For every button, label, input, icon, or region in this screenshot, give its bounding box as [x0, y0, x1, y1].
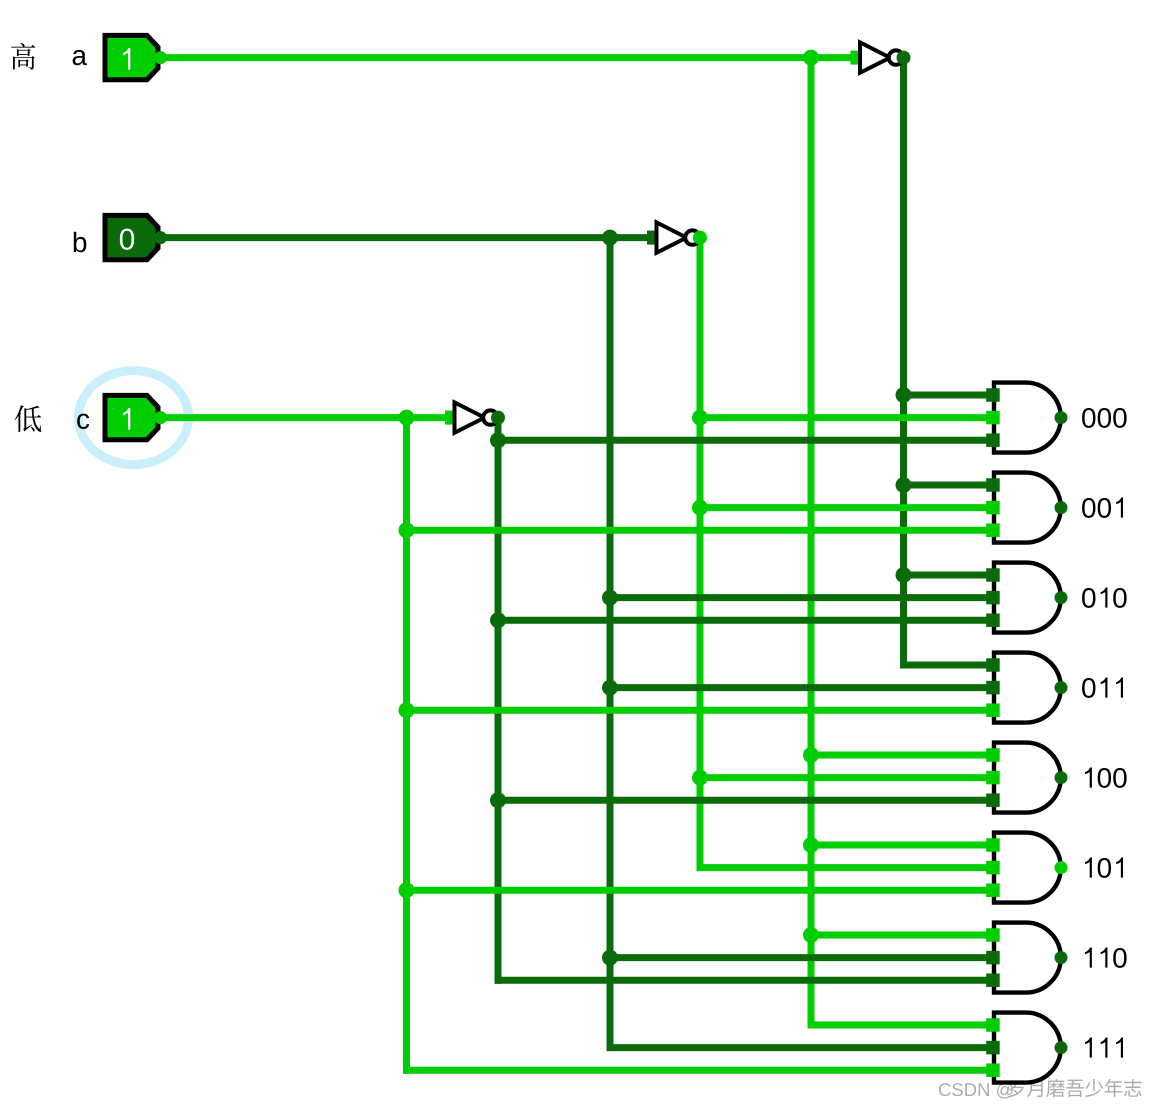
pin c output port: [154, 411, 167, 424]
wire branch NOT-a to gate 001 input 1: [900, 482, 987, 489]
wire c from pin c to NOT gate U3: [161, 414, 447, 421]
AND gate 001: [986, 473, 1061, 543]
input pin a (value 1): [105, 35, 158, 79]
AND gate 000 output port: [1055, 411, 1068, 424]
label 001: [1082, 498, 1123, 518]
wire branch c to gate 011 input 3: [403, 707, 987, 714]
junction node c / V1: [399, 410, 415, 426]
wire branch NOT-a to gate 010 input 1: [900, 572, 987, 579]
junction V1 row 101: [399, 882, 415, 898]
label 010: [1082, 588, 1127, 608]
wire net c vertical: [403, 418, 410, 1074]
junction V5 row 110: [803, 927, 819, 943]
wire branch b to gate 111 input 2: [607, 1044, 987, 1051]
wire branch a to gate 101 input 1: [808, 842, 987, 849]
pin a output port: [154, 51, 167, 64]
label 低 (low bit): [15, 405, 42, 432]
wire a from pin a to NOT gate U1: [161, 54, 852, 61]
junction V1 row 011: [399, 702, 415, 718]
wire branch NOT-c to gate 000 input 3: [495, 437, 987, 444]
wire net NOT-c vertical: [495, 418, 502, 984]
AND gate 011 output port: [1055, 681, 1068, 694]
AND gate 101 output port: [1055, 861, 1068, 874]
wire branch a to gate 111 input 1: [808, 1022, 987, 1029]
AND gate 101: [986, 833, 1061, 903]
NOT gate U1 (inverts a): [851, 42, 904, 72]
junction V2 row 010: [490, 612, 506, 628]
wire branch a to gate 110 input 1: [808, 932, 987, 939]
input pin b (value 0): [105, 215, 158, 259]
NOT gate U3 (inverts c): [445, 402, 498, 432]
wire branch c to gate 111 input 3: [403, 1067, 987, 1074]
AND gate 100: [986, 743, 1061, 813]
wire branch NOT-b to gate 001 input 2: [697, 504, 987, 511]
wire branch c to gate 001 input 3: [403, 527, 987, 534]
wire net a vertical: [808, 58, 815, 1029]
junction V4 row 000: [692, 410, 708, 426]
junction node b / V3: [602, 230, 618, 246]
junction V3 row 011: [602, 680, 618, 696]
wire branch NOT-a to gate 000 input 1: [900, 392, 987, 399]
AND gate 011: [986, 653, 1061, 723]
selection halo around pin c: [79, 371, 189, 465]
AND gate 010 output port: [1055, 591, 1068, 604]
label 101: [1085, 858, 1123, 878]
input pin c (value 1): [105, 395, 158, 439]
wire branch NOT-b to gate 101 input 2: [697, 864, 987, 871]
wire branch NOT-b to gate 000 input 2: [697, 414, 987, 421]
junction V6 row 010: [896, 567, 912, 583]
junction V5 row 100: [803, 747, 819, 763]
watermark CSDN @岁月磨吾少年志: [939, 1079, 1142, 1099]
junction node a / V5: [803, 50, 819, 66]
junction V3 row 110: [602, 950, 618, 966]
NOT gate U2 output port: [693, 231, 707, 245]
label 000: [1082, 408, 1127, 428]
wire branch NOT-b to gate 100 input 2: [697, 774, 987, 781]
AND gate 111 output port: [1055, 1041, 1068, 1054]
junction V3 row 010: [602, 590, 618, 606]
AND gate 000: [986, 383, 1061, 453]
wire net NOT-b vertical: [697, 238, 704, 872]
wire branch NOT-c to gate 100 input 3: [495, 797, 987, 804]
wire branch NOT-c to gate 010 input 3: [495, 617, 987, 624]
junction V2 row 000: [490, 432, 506, 448]
junction V4 row 001: [692, 500, 708, 516]
junction V2 row 100: [490, 792, 506, 808]
label 011: [1082, 678, 1123, 698]
label 111: [1085, 1038, 1123, 1058]
junction V4 row 100: [692, 770, 708, 786]
wire branch c to gate 101 input 3: [403, 887, 987, 894]
AND gate 110: [986, 923, 1061, 993]
AND gate 100 output port: [1055, 771, 1068, 784]
label 100: [1085, 768, 1127, 788]
junction V6 row 001: [896, 477, 912, 493]
wire branch a to gate 100 input 1: [808, 752, 987, 759]
junction V1 row 001: [399, 522, 415, 538]
wire b from pin b to NOT gate U2: [161, 234, 649, 241]
pin b output port: [154, 231, 167, 244]
AND gate 111: [986, 1013, 1061, 1083]
NOT gate U1 output port: [897, 51, 911, 65]
label 高 (high bit): [11, 43, 35, 70]
NOT gate U3 output port: [491, 411, 505, 425]
AND gate 110 output port: [1055, 951, 1068, 964]
wire branch NOT-c to gate 110 input 3: [495, 977, 987, 984]
NOT gate U2 (inverts b): [647, 222, 700, 252]
AND gate 010: [986, 563, 1061, 633]
junction V5 row 101: [803, 837, 819, 853]
label c: [77, 414, 89, 429]
wire branch b to gate 010 input 2: [607, 594, 987, 601]
label a: [73, 50, 87, 65]
label 110: [1085, 948, 1127, 968]
wire branch b to gate 110 input 2: [607, 954, 987, 961]
wire branch NOT-a to gate 011 input 1: [900, 662, 987, 669]
junction V6 row 000: [896, 387, 912, 403]
wire net b vertical: [607, 238, 614, 1052]
AND gate 001 output port: [1055, 501, 1068, 514]
wire branch b to gate 011 input 2: [607, 684, 987, 691]
wire net NOT-a vertical: [900, 58, 907, 669]
label b: [74, 232, 87, 253]
